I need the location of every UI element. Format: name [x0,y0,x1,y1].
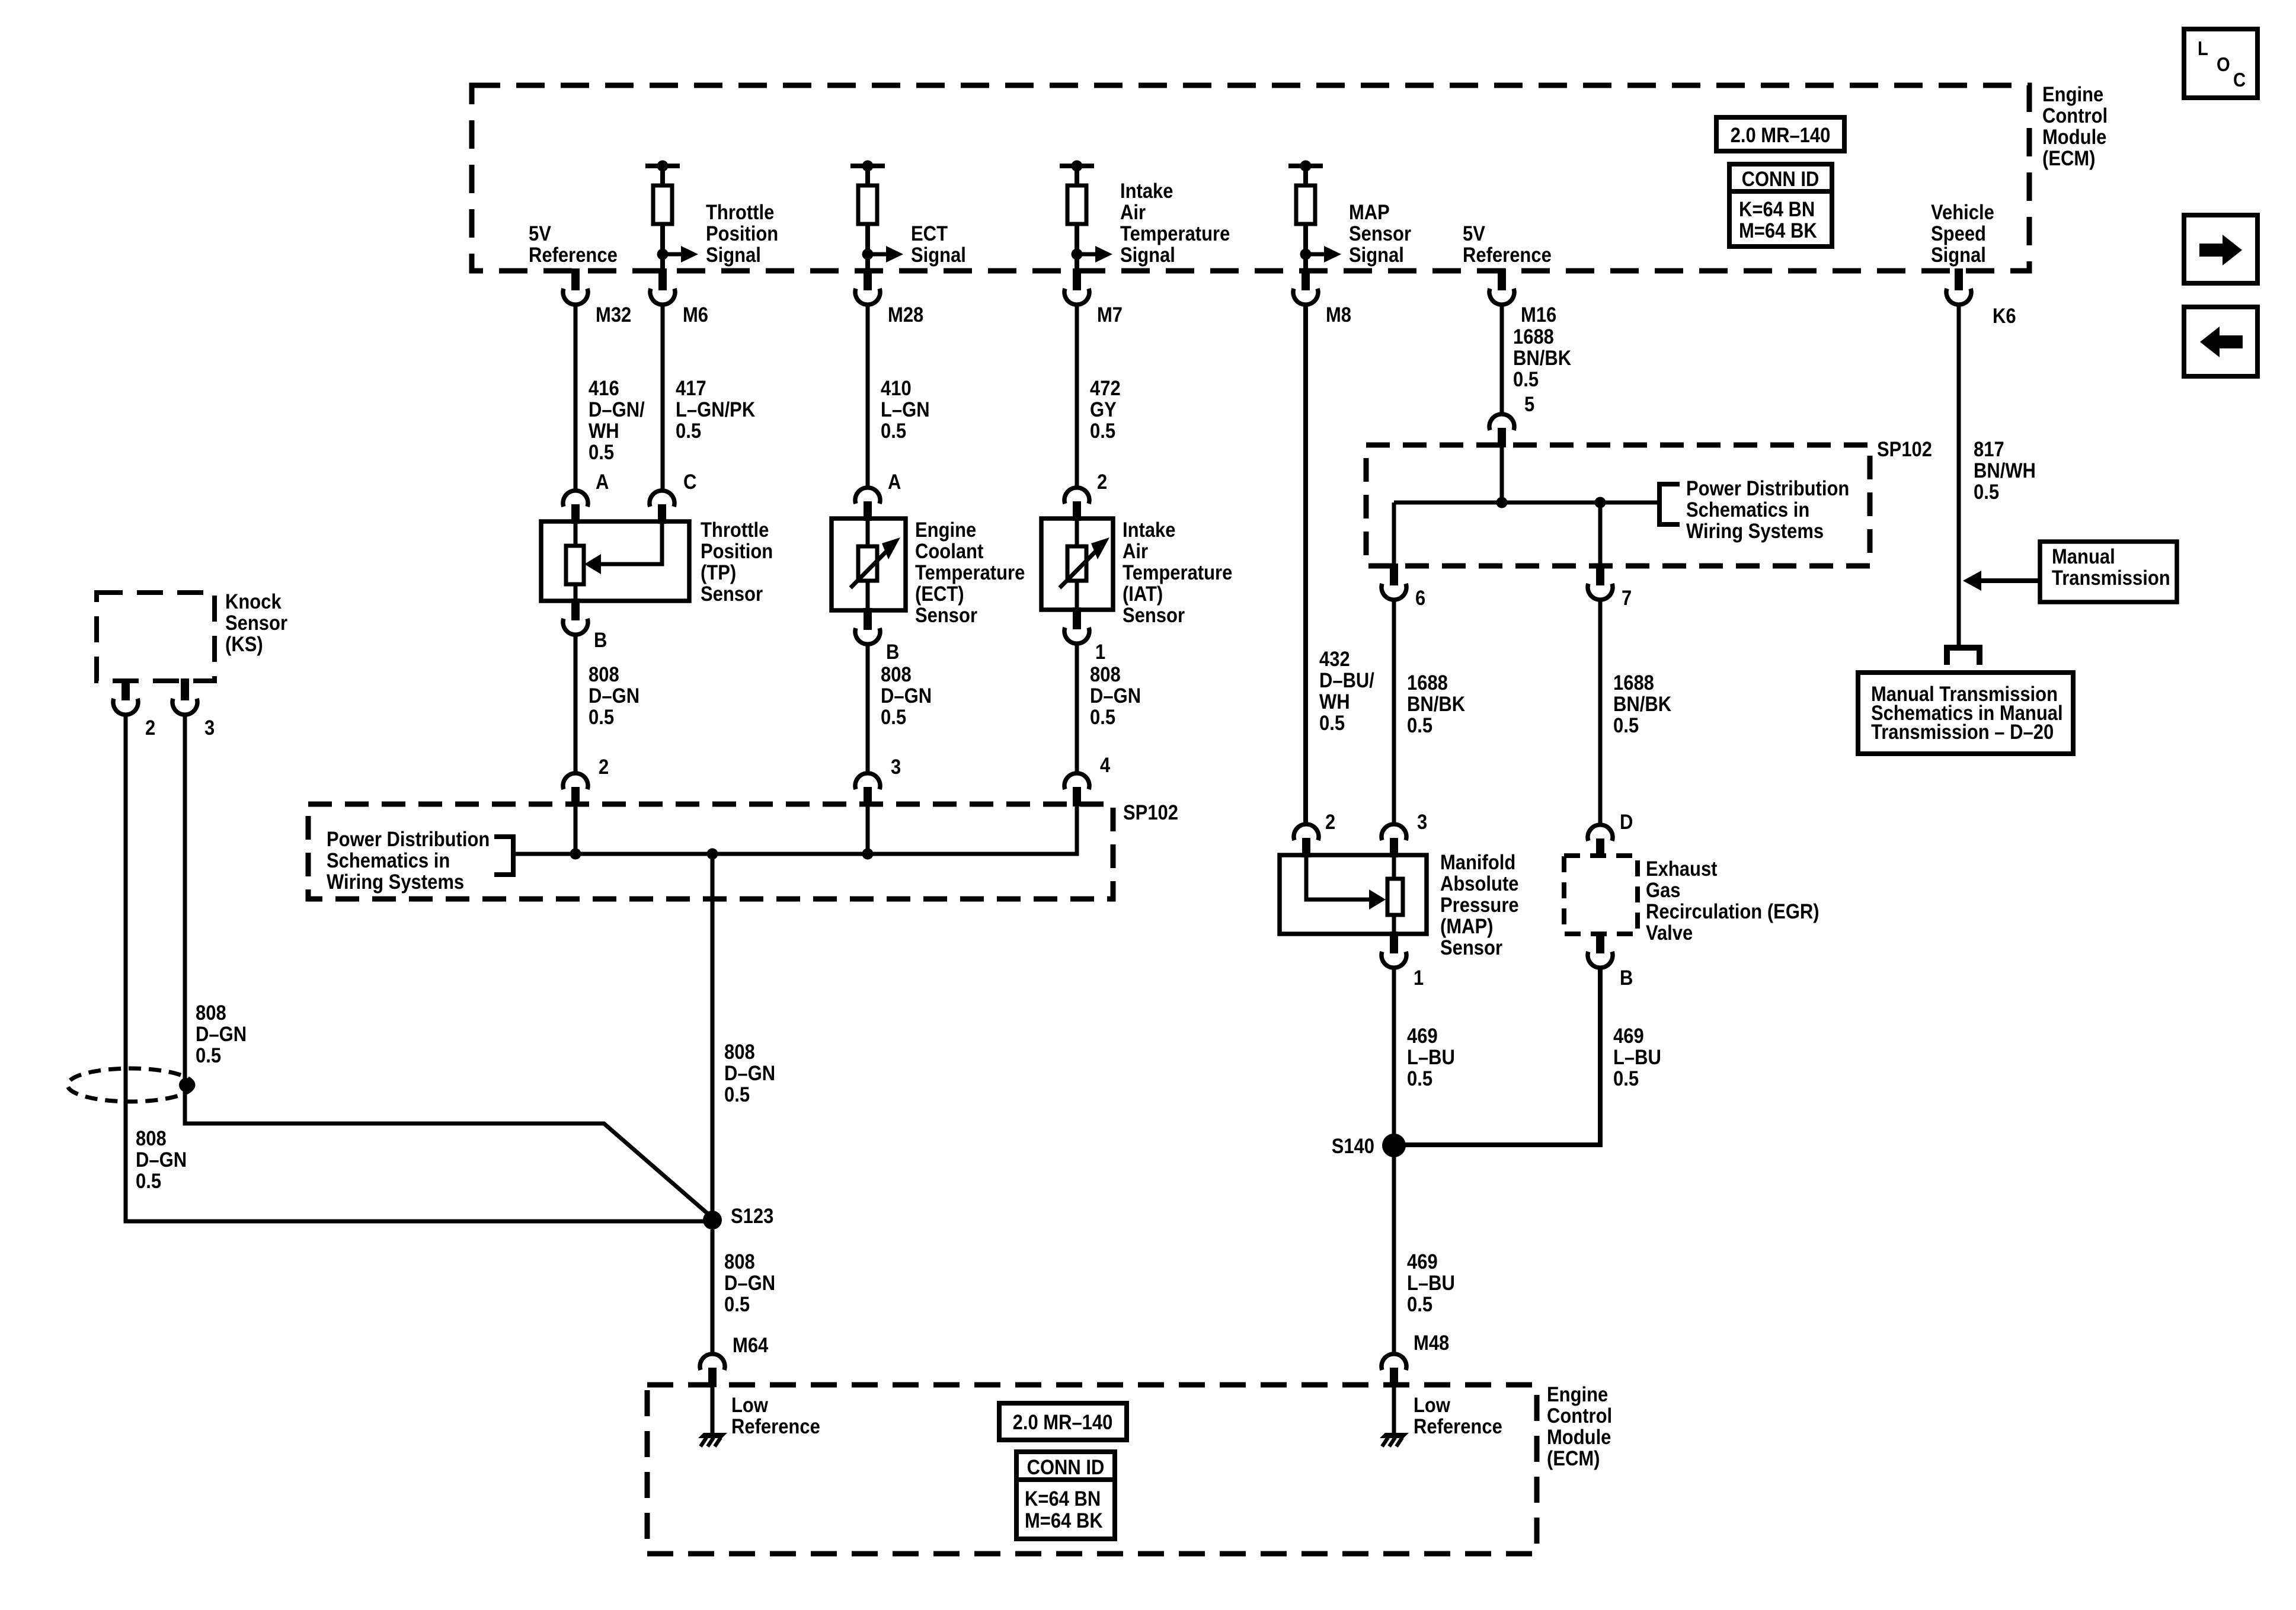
shield dot [179,1078,193,1092]
svg-text:0.5: 0.5 [881,420,906,443]
wire ECT signal to connector [865,254,870,270]
signal arrow ECT signal [868,252,886,257]
ECT thermistor arrow [850,547,891,588]
svg-text:0.5: 0.5 [724,1083,750,1106]
Manual Transmission Schematics box [1858,673,2073,754]
next-page arrow box [2184,215,2257,283]
svg-text:Valve: Valve [1646,921,1693,945]
MAP wiper arrow [1306,855,1369,900]
wire 817 K6 down [1957,303,1961,647]
svg-text:BN/BK: BN/BK [1513,347,1571,370]
signal arrow IAT signal [1077,252,1095,257]
wire MAP signal to connector [1303,254,1308,270]
wire 417 M6 to TP pin C [661,303,665,491]
wire 808 TP-B to SP102 pin 2 [574,633,578,774]
svg-text:3: 3 [891,756,901,779]
svg-text:K=64 BN: K=64 BN [1739,198,1815,221]
connector SP102 pin 7 [1596,564,1604,585]
wire TP branch into bus [574,806,578,854]
CONN ID box (bottom) [1016,1452,1115,1539]
resistor IAT signal [1075,168,1079,187]
svg-text:5V: 5V [529,222,551,245]
svg-text:D–GN: D–GN [1090,684,1141,708]
svg-text:D–GN: D–GN [589,684,639,708]
svg-text:0.5: 0.5 [196,1044,221,1067]
svg-text:Sensor: Sensor [1440,936,1502,959]
svg-text:Signal: Signal [1931,244,1986,267]
wire 416 M32 to TP pin A [574,303,578,491]
svg-text:D–BU/: D–BU/ [1319,669,1374,692]
svg-text:M7: M7 [1097,303,1123,327]
TP wiper arrow [601,521,662,564]
svg-text:0.5: 0.5 [1319,712,1345,735]
SP102 splice box (left) [308,804,1113,899]
svg-text:0.5: 0.5 [1407,1067,1432,1090]
ground lead M64 [711,1387,715,1435]
connector M16 [1498,268,1506,290]
svg-text:Power Distribution: Power Distribution [327,828,490,851]
svg-text:Manifold: Manifold [1440,851,1515,874]
svg-text:Module: Module [2042,126,2106,149]
connector SP102 pin 3 [855,773,880,789]
svg-text:Wiring Systems: Wiring Systems [327,870,464,894]
2.0 MR-140 label box (bottom) [999,1403,1127,1440]
svg-text:D–GN: D–GN [136,1148,187,1172]
wire 808 ECT-B to SP102 pin 3 [866,642,870,774]
svg-text:2.0 MR–140: 2.0 MR–140 [1013,1411,1113,1434]
svg-text:Schematics in: Schematics in [1686,498,1809,521]
svg-text:5: 5 [1524,393,1534,416]
IAT thermistor arrow [1060,547,1100,588]
signal arrow TP signal [663,252,681,257]
svg-text:D–GN: D–GN [724,1272,775,1295]
svg-text:BN/BK: BN/BK [1613,693,1671,716]
svg-text:0.5: 0.5 [1090,420,1115,443]
svg-text:2: 2 [1325,811,1335,834]
svg-text:Reference: Reference [1414,1415,1502,1438]
connector EGR pin D [1588,825,1613,841]
svg-text:S123: S123 [731,1205,773,1228]
svg-text:Reference: Reference [1463,244,1552,267]
svg-text:Reference: Reference [529,244,618,267]
svg-text:M6: M6 [683,303,708,327]
svg-text:808: 808 [881,663,912,686]
svg-text:0.5: 0.5 [589,441,614,464]
svg-text:0.5: 0.5 [1613,1067,1639,1090]
svg-text:Engine: Engine [1547,1383,1608,1406]
svg-text:M48: M48 [1414,1331,1449,1355]
wire KS pin 3 to S123 [185,713,712,1218]
svg-text:CONN ID: CONN ID [1027,1456,1105,1479]
svg-text:0.5: 0.5 [676,420,701,443]
svg-text:M8: M8 [1326,303,1351,327]
svg-text:0.5: 0.5 [1090,706,1115,729]
svg-text:Wiring Systems: Wiring Systems [1686,520,1824,543]
connector M32 [571,268,580,290]
junction dot EGR branch [1595,497,1606,508]
svg-text:SP102: SP102 [1123,801,1178,824]
svg-text:Recirculation (EGR): Recirculation (EGR) [1646,900,1819,923]
wire S140 to M48 [1392,1156,1396,1355]
connector MAP pin 1 [1390,932,1398,953]
node IAT signal signal junction [1072,249,1083,260]
svg-text:Knock: Knock [225,590,282,613]
junction dot TP branch [570,849,581,860]
svg-text:CONN ID: CONN ID [1742,168,1819,191]
wire 1688 pin6 to MAP pin 3 [1392,598,1396,824]
svg-text:808: 808 [724,1250,755,1273]
connector MAP pin 2 [1294,824,1319,840]
svg-text:808: 808 [589,663,619,686]
svg-text:Signal: Signal [1120,244,1175,267]
svg-text:MAP: MAP [1349,201,1390,224]
junction dot ECT branch [862,849,874,860]
prev-page arrow box [2184,307,2257,376]
svg-text:7: 7 [1622,587,1632,610]
svg-text:Temperature: Temperature [915,561,1025,584]
node TP signal signal junction [657,249,669,260]
2.0 MR-140 label box (top) [1716,117,1844,151]
shield ellipse [68,1068,193,1102]
svg-text:K=64 BN: K=64 BN [1025,1487,1101,1510]
svg-text:M64: M64 [733,1334,769,1357]
svg-text:Signal: Signal [911,244,966,267]
connector SP102 pin 6 [1390,564,1398,585]
wire drop SP102 to S123 [711,854,715,1220]
svg-text:BN/BK: BN/BK [1407,693,1465,716]
connector TP pin A [563,491,588,507]
wire 1688 M16 to SP102 pin 5 [1500,303,1504,414]
resistor TP signal [660,168,665,187]
svg-text:Signal: Signal [706,244,761,267]
svg-text:(ECM): (ECM) [2042,147,2096,170]
svg-text:469: 469 [1613,1025,1644,1048]
connector MAP pin 3 [1382,824,1406,840]
ground symbol M48 [1380,1433,1409,1438]
svg-text:Power Distribution: Power Distribution [1686,477,1849,500]
connector ECT pin B [864,608,872,630]
svg-text:2: 2 [599,756,609,779]
svg-text:0.5: 0.5 [1613,714,1639,737]
svg-text:2.0 MR–140: 2.0 MR–140 [1731,124,1831,147]
svg-text:Transmission – D–20: Transmission – D–20 [1871,721,2054,744]
svg-text:Absolute: Absolute [1440,872,1519,895]
svg-text:D–GN: D–GN [881,684,932,708]
svg-text:Low: Low [1414,1394,1451,1417]
svg-text:6: 6 [1415,587,1425,610]
wire ECT branch into bus [866,806,870,854]
Manual Transmission callout box [2040,542,2177,602]
ECM top dashed box [472,85,2029,271]
svg-text:0.5: 0.5 [724,1293,750,1316]
svg-text:M16: M16 [1521,303,1556,327]
EGR valve dashed box [1564,856,1638,934]
svg-text:5V: 5V [1463,222,1485,245]
svg-text:B: B [1620,966,1633,990]
CONN ID box (top) [1729,164,1832,247]
svg-text:D–GN/: D–GN/ [589,398,645,421]
svg-text:Speed: Speed [1931,222,1986,245]
svg-text:L–GN: L–GN [881,398,930,421]
wire 472 M7 to IAT pin 2 [1075,303,1079,488]
svg-text:Temperature: Temperature [1120,222,1230,245]
TP potentiometer [574,521,578,546]
svg-text:Air: Air [1120,201,1146,224]
connector SP102 pin 2 [563,773,588,789]
wire 808 IAT-1 to SP102 pin 4 [1075,642,1079,774]
MAP signal pull-up supply bar [1288,164,1323,168]
svg-text:GY: GY [1090,398,1117,421]
svg-text:M32: M32 [596,303,631,327]
svg-text:817: 817 [1974,438,2004,461]
wire IAT signal to connector [1075,254,1079,270]
svg-text:SP102: SP102 [1877,438,1932,461]
wire 469 EGR pin B to S140 [1403,966,1600,1145]
connector KS pin 2 [121,678,130,700]
svg-text:Coolant: Coolant [915,540,984,563]
connector M48 [1382,1354,1406,1370]
svg-text:(ECT): (ECT) [915,582,964,606]
svg-text:0.5: 0.5 [881,706,906,729]
svg-text:B: B [886,641,899,664]
connector TP pin C [650,491,674,507]
svg-text:L–GN/PK: L–GN/PK [676,398,755,421]
svg-text:C: C [683,470,696,494]
svg-text:Signal: Signal [1349,244,1404,267]
svg-text:0.5: 0.5 [136,1170,161,1193]
svg-text:469: 469 [1407,1250,1438,1273]
reference bracket (right SP102) [1657,482,1662,527]
resistor ECT signal [865,168,870,187]
connector IAT pin 1 [1073,607,1081,629]
svg-text:D–GN: D–GN [724,1062,775,1085]
svg-text:472: 472 [1090,377,1121,400]
svg-text:M28: M28 [888,303,923,327]
svg-text:432: 432 [1319,648,1350,671]
svg-text:Vehicle: Vehicle [1931,201,1994,224]
ground lead M48 [1392,1387,1396,1435]
svg-text:Pressure: Pressure [1440,894,1519,917]
svg-text:Module: Module [1547,1426,1611,1449]
svg-text:808: 808 [1090,663,1121,686]
MAP potentiometer [1392,855,1396,879]
wire 1688 pin7 to EGR pin D [1598,598,1603,824]
wire 469 MAP pin1 to S140 [1392,966,1396,1145]
svg-text:2: 2 [1097,470,1107,494]
svg-text:Schematics in: Schematics in [327,849,450,872]
splice S140 [1382,1134,1406,1157]
svg-text:416: 416 [589,377,619,400]
svg-text:(IAT): (IAT) [1123,582,1163,606]
signal arrow MAP signal [1306,252,1324,257]
svg-text:1688: 1688 [1613,671,1654,694]
svg-text:Throttle: Throttle [706,201,774,224]
connector M6 [658,268,667,290]
svg-text:Reference: Reference [731,1415,820,1438]
svg-text:469: 469 [1407,1025,1438,1048]
connector EGR pin B [1596,932,1604,953]
svg-text:(MAP): (MAP) [1440,915,1494,938]
svg-text:L–BU: L–BU [1613,1046,1661,1069]
TP signal pull-up supply bar [645,164,680,168]
svg-text:M=64 BK: M=64 BK [1739,219,1817,242]
svg-text:Sensor: Sensor [701,582,763,606]
connector TP pin B [571,598,580,620]
svg-text:O: O [2217,53,2230,75]
svg-text:Sensor: Sensor [1349,222,1411,245]
svg-text:Manual: Manual [2052,545,2115,568]
svg-text:Position: Position [706,222,778,245]
splice S123 [703,1211,722,1230]
IAT sensor box [1041,518,1113,610]
svg-text:410: 410 [881,377,912,400]
svg-text:4: 4 [1100,754,1111,777]
Knock Sensor (KS) dashed box [97,593,215,681]
svg-text:Control: Control [1547,1404,1612,1427]
svg-text:0.5: 0.5 [589,706,614,729]
svg-text:L–BU: L–BU [1407,1046,1455,1069]
svg-text:0.5: 0.5 [1407,1293,1432,1316]
svg-text:0.5: 0.5 [1974,481,1999,504]
SP102 right bus [1500,447,1504,502]
connector K6 [1955,268,1963,290]
svg-text:A: A [888,470,901,494]
svg-text:S140: S140 [1332,1135,1374,1158]
wire TP signal to connector [660,254,665,270]
svg-text:B: B [594,629,607,652]
svg-text:BN/WH: BN/WH [1974,459,2036,482]
svg-text:A: A [596,470,609,494]
SP102 bus wire [514,806,1077,854]
wire 410 M28 to ECT pin A [866,303,870,488]
ECT thermistor [866,518,870,546]
reference bracket (left SP102) [511,834,516,877]
connector M64 [700,1354,725,1370]
svg-text:Engine: Engine [2042,83,2103,106]
svg-text:1: 1 [1095,641,1105,664]
svg-text:Position: Position [701,540,773,563]
connector IAT pin 2 [1064,488,1089,504]
svg-text:Air: Air [1123,540,1148,563]
svg-text:Exhaust: Exhaust [1646,857,1718,881]
junction dot M16 entry [1496,497,1508,508]
svg-text:D–GN: D–GN [196,1023,247,1046]
connector M8 [1302,268,1310,290]
svg-text:M=64 BK: M=64 BK [1025,1509,1103,1532]
IAT thermistor [1075,518,1079,546]
svg-text:3: 3 [204,716,215,740]
connector M7 [1073,268,1081,290]
resistor MAP signal [1303,168,1308,187]
ECM bottom dashed box [647,1385,1537,1554]
svg-text:(TP): (TP) [701,561,736,584]
svg-text:(ECM): (ECM) [1547,1447,1600,1470]
svg-text:ECT: ECT [911,222,948,245]
svg-text:0.5: 0.5 [1407,714,1432,737]
svg-text:D: D [1620,811,1633,834]
svg-text:K6: K6 [1993,305,2016,328]
svg-text:Gas: Gas [1646,879,1681,902]
connector SP102 pin 4 [1064,773,1089,789]
svg-text:Control: Control [2042,104,2108,127]
svg-text:Throttle: Throttle [701,518,769,542]
wire S123 to M64 [711,1230,715,1355]
svg-text:Intake: Intake [1123,518,1176,542]
svg-text:Low: Low [731,1394,769,1417]
connector ECT pin A [855,488,880,504]
svg-text:808: 808 [136,1127,167,1150]
svg-text:WH: WH [589,420,619,443]
wire 432 M8 to MAP pin 2 [1303,303,1308,824]
svg-text:(KS): (KS) [225,633,263,656]
svg-text:Engine: Engine [915,518,976,542]
svg-text:Sensor: Sensor [225,612,287,635]
svg-text:1688: 1688 [1513,325,1554,348]
connector M28 [864,268,872,290]
terminal into MT schematics [1944,645,1982,651]
svg-text:Sensor: Sensor [1123,604,1185,627]
svg-text:2: 2 [145,716,155,740]
node MAP signal signal junction [1300,249,1312,260]
connector SP102 pin 5 [1489,414,1514,430]
SP102 splice box (top right) [1366,445,1870,566]
svg-text:Intake: Intake [1120,180,1173,203]
svg-text:1688: 1688 [1407,671,1448,694]
wire KS pin 2 to S123 [126,713,712,1221]
svg-text:3: 3 [1417,811,1427,834]
ECT sensor box [832,518,906,610]
svg-text:1: 1 [1414,966,1424,990]
svg-text:L–BU: L–BU [1407,1272,1455,1295]
svg-text:808: 808 [724,1041,755,1064]
svg-text:0.5: 0.5 [1513,368,1539,391]
LOC legend box [2184,29,2257,98]
svg-text:Temperature: Temperature [1123,561,1232,584]
svg-text:L: L [2198,37,2208,59]
ECT signal pull-up supply bar [850,164,885,168]
node ECT signal signal junction [862,249,874,260]
connector KS pin 3 [181,678,189,700]
IAT signal pull-up supply bar [1060,164,1094,168]
arrow Manual Transmission to wire [1981,578,2040,583]
svg-text:WH: WH [1319,690,1350,713]
svg-text:808: 808 [196,1001,226,1025]
ground symbol M64 [698,1433,727,1438]
svg-text:Transmission: Transmission [2052,566,2170,590]
svg-text:Sensor: Sensor [915,604,977,627]
junction dot S123 drop [707,849,718,860]
TP sensor box [541,521,689,601]
MAP sensor box [1280,855,1427,934]
svg-text:417: 417 [676,377,706,400]
svg-text:C: C [2233,69,2246,91]
